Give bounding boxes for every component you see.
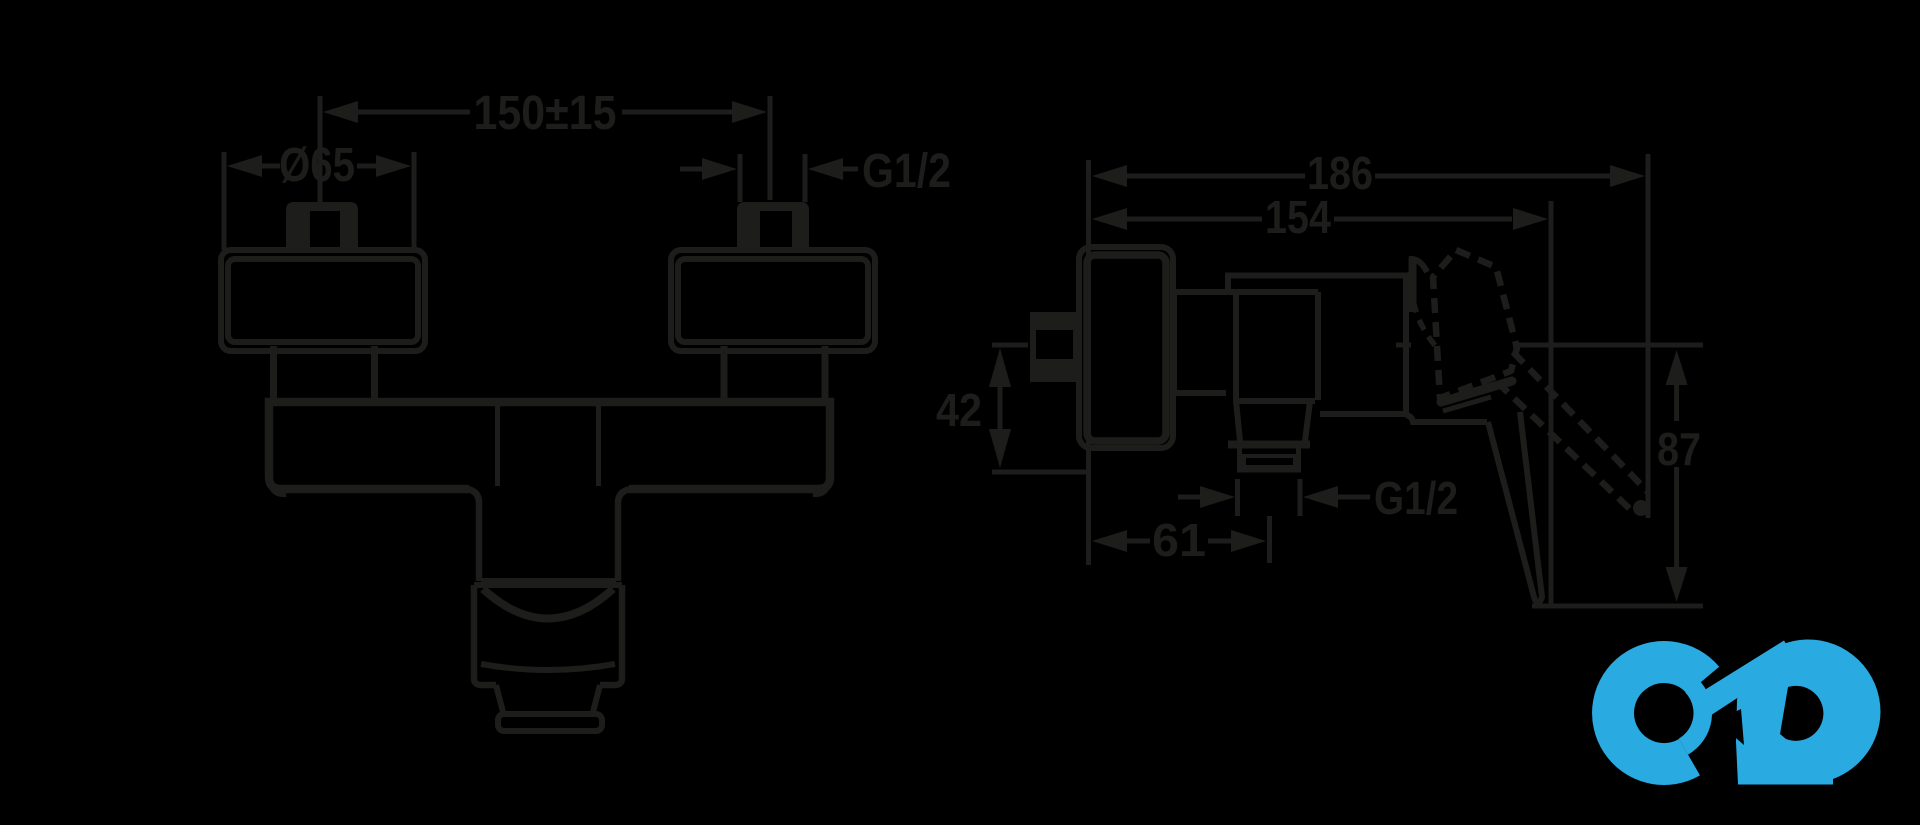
- body bar divider left: [495, 406, 500, 486]
- dashed lever tip blob: [1633, 500, 1649, 516]
- dimension Ø65 extension line left: [222, 152, 227, 250]
- center tube right wall: [618, 489, 631, 581]
- ring nut bottom: [1174, 390, 1226, 396]
- dimension 61: [1092, 530, 1127, 552]
- dimension 150±15 line left: [356, 110, 470, 115]
- cylinder meniscus arc: [483, 589, 613, 619]
- cylinder top edge: [474, 582, 622, 588]
- logo right loop: [1736, 639, 1881, 784]
- sleeve bottom: [1236, 398, 1315, 404]
- ring nut left wall: [1171, 292, 1177, 393]
- solid handle arm lower edge: [1443, 397, 1491, 411]
- outlet stub bottom: [1237, 468, 1301, 473]
- svg-text:G1/2: G1/2: [862, 145, 951, 198]
- dashed lever lower line: [1497, 382, 1633, 512]
- right connector block: [721, 346, 728, 402]
- center tube left wall: [467, 489, 479, 581]
- outlet stub inner: [1244, 456, 1295, 467]
- dimension G1/2 top arrow left: [680, 167, 704, 172]
- dimension G1/2 top tick right: [803, 154, 808, 202]
- svg-text:G1/2: G1/2: [1374, 472, 1458, 524]
- wall plate inner: [1087, 255, 1166, 441]
- dimension Ø65 line left: [260, 164, 280, 169]
- body bar: [269, 402, 830, 489]
- dimension Ø65 arrow left: [227, 155, 262, 177]
- inlet fitting side (filled): [1030, 312, 1078, 382]
- shared left extension line (186/154/61): [1086, 160, 1091, 565]
- dimension 42 arrows: [989, 348, 1011, 387]
- 87 top reference stub: [1396, 343, 1411, 348]
- svg-text:42: 42: [936, 384, 982, 436]
- body bar divider right: [596, 406, 601, 486]
- dimension 186: [1092, 165, 1127, 187]
- dimension 42 top reference: [992, 343, 1028, 348]
- dimension 150±15 extension line right: [768, 96, 773, 200]
- solid handle cap bar: [1409, 258, 1417, 312]
- dimension 150±15 line right: [622, 110, 734, 115]
- solid handle arm: [1441, 381, 1512, 402]
- cone left: [496, 685, 504, 716]
- left escutcheon outer: [221, 250, 425, 351]
- dimension G1/2 side arrows: [1178, 495, 1202, 500]
- left escutcheon inner: [228, 259, 418, 342]
- body bar end lip right: [813, 484, 828, 494]
- svg-text:Ø65: Ø65: [279, 139, 355, 192]
- dashed swing arc: [1411, 264, 1440, 351]
- logo diagonal band: [1699, 641, 1796, 716]
- ring/sleeve top line: [1174, 289, 1318, 295]
- wall plate outer: [1079, 247, 1173, 448]
- svg-text:154: 154: [1265, 191, 1331, 243]
- right inlet nipple (filled): [737, 202, 809, 253]
- right escutcheon inner: [678, 259, 868, 342]
- cone right: [592, 685, 600, 716]
- cylinder lower arc: [481, 664, 615, 670]
- dimension 186 extension right: [1646, 154, 1651, 518]
- sleeve taper left: [1236, 401, 1240, 441]
- dimension 154 extension right: [1549, 201, 1554, 606]
- solid handle under-line: [1406, 415, 1487, 422]
- outlet flange: [1228, 441, 1310, 449]
- dimension 154: [1092, 208, 1127, 230]
- dimension Ø65 extension line right: [412, 152, 417, 252]
- dimension Ø65 arrow right: [376, 155, 411, 177]
- solid handle blade: [1488, 412, 1542, 603]
- G1/2 side ticks: [1235, 479, 1240, 516]
- bottom reference line: [1532, 604, 1703, 609]
- dashed handle (open position) outline: [1433, 250, 1517, 398]
- cylinder right wall: [600, 585, 622, 685]
- dimension 150±15 arrow right: [732, 101, 767, 123]
- inlet fitting hole: [1036, 330, 1073, 359]
- sleeve taper right: [1305, 401, 1310, 441]
- logo notch: [1716, 709, 1744, 745]
- right escutcheon outer: [671, 250, 875, 351]
- svg-text:150±15: 150±15: [474, 87, 617, 140]
- dimension Ø65 line right: [357, 164, 378, 169]
- dashed lever upper line: [1513, 352, 1648, 492]
- body bar end lip left: [271, 484, 286, 494]
- left inlet nipple hole: [310, 211, 340, 253]
- tube bottom flange: [481, 578, 616, 584]
- 87 top reference line: [1513, 343, 1703, 348]
- dimension 87: [1666, 350, 1688, 385]
- bottom cap: [498, 714, 602, 731]
- outlet stub right: [1296, 448, 1301, 470]
- sleeve left wall: [1233, 292, 1239, 401]
- outlet stub left: [1237, 448, 1242, 470]
- dimension 150±15 arrow left: [323, 101, 358, 123]
- cartridge body top: [1228, 276, 1406, 415]
- logo left C: [1613, 662, 1703, 764]
- solid handle cap top curve: [1409, 259, 1427, 272]
- logo ring inner continuation (bridge): [1683, 686, 1702, 747]
- left inlet nipple (filled): [286, 202, 358, 253]
- left connector block: [270, 346, 277, 402]
- cylinder left wall: [474, 585, 496, 685]
- dimension G1/2 top arrow right: [808, 158, 843, 180]
- dimension 42 bottom reference: [992, 470, 1086, 475]
- sleeve right wall: [1315, 292, 1321, 400]
- dimension 61 extension tick: [1267, 516, 1272, 563]
- dimension 150±15 extension line left: [318, 96, 323, 202]
- dimension G1/2 top tick left: [738, 154, 743, 202]
- svg-text:61: 61: [1152, 514, 1206, 566]
- right inlet nipple hole: [760, 211, 792, 253]
